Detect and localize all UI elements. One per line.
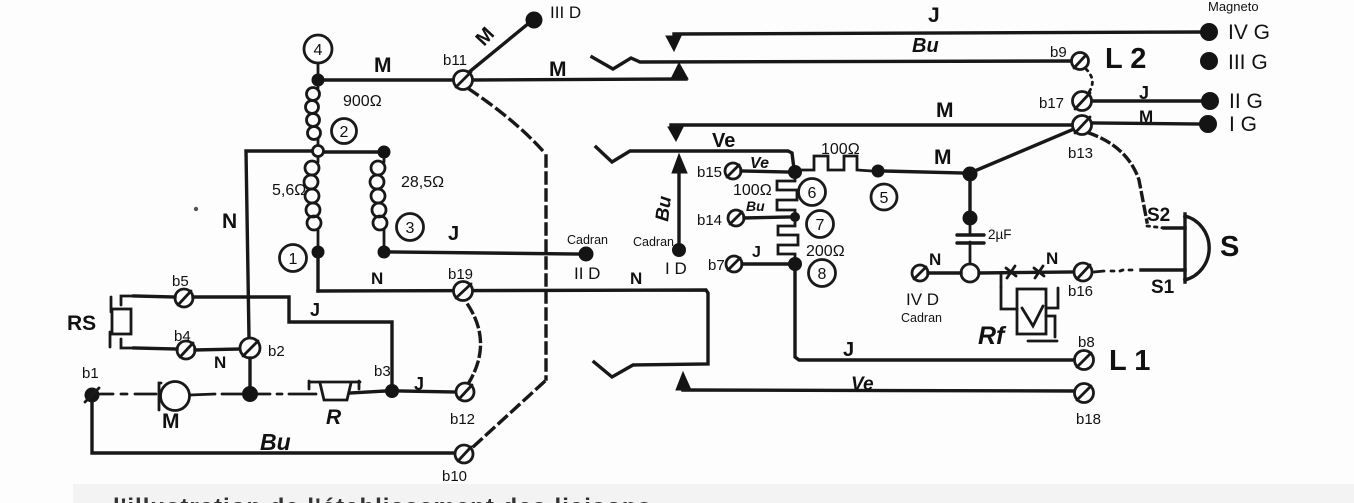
node 4 terminal dot: [312, 74, 325, 87]
node dot 100ohm right: [872, 165, 885, 178]
wire b5 path J to b3: [193, 297, 392, 386]
svg-text:Bu: Bu: [652, 195, 676, 223]
dash-dot b16 to S1: [1094, 270, 1132, 272]
svg-text:I G: I G: [1229, 113, 1257, 136]
circle marker 7: [807, 211, 834, 238]
terminal II D dot: [579, 247, 594, 262]
capacitor 2uF: [957, 225, 984, 264]
wire M from node 4 through b11: [318, 78, 455, 81]
plug contact triangle under J line: [666, 36, 681, 51]
svg-text:N: N: [214, 353, 226, 372]
wire node2 left to N vertical: [246, 151, 312, 338]
wire circle4 stem: [317, 63, 320, 75]
svg-text:II G: II G: [1229, 90, 1263, 113]
wire b11 to III D: [468, 23, 529, 73]
wire M junction down to cap: [968, 181, 971, 212]
svg-text:b10: b10: [442, 468, 467, 485]
svg-text:Bu: Bu: [912, 35, 939, 57]
svg-text:2µF: 2µF: [988, 227, 1012, 242]
svg-text:M: M: [374, 54, 392, 77]
svg-text:S: S: [1220, 231, 1239, 263]
svg-text:7: 7: [816, 217, 825, 234]
dashed diagonal to b10: [473, 382, 544, 447]
svg-text:Cadran: Cadran: [567, 233, 608, 247]
terminal b16: [1074, 263, 1092, 281]
wire node to M junction: [884, 171, 963, 173]
circle marker 8: [809, 260, 836, 287]
dotted curve b9 to b17: [1086, 69, 1092, 92]
wire coil1 bottom down to N line: [316, 252, 319, 291]
wire J line top to IV G: [674, 32, 1203, 34]
terminal b9: [1072, 53, 1089, 70]
resistor 200ohm: [778, 219, 798, 258]
terminal IV G magneto: [1200, 23, 1218, 41]
svg-text:M: M: [162, 410, 180, 433]
junction dot on mic line: [242, 386, 258, 402]
plug contact triangle up on M wire end: [671, 63, 688, 79]
svg-text:b7: b7: [708, 257, 725, 274]
microphone M: [159, 382, 190, 411]
terminal III G magneto: [1200, 52, 1218, 70]
terminal b5: [175, 289, 193, 307]
circle marker 6: [799, 179, 826, 206]
svg-text:I D: I D: [665, 259, 687, 278]
node dot resistor junction: [788, 165, 802, 179]
svg-text:J: J: [310, 300, 320, 320]
svg-text:J: J: [448, 223, 459, 245]
svg-text:200Ω: 200Ω: [806, 243, 845, 260]
terminal I G magneto: [1199, 115, 1217, 133]
node b3 dot: [385, 384, 399, 398]
wire junction to b16 with tick marks: [979, 272, 1074, 273]
wire node8 down and J line to b8: [795, 270, 1074, 360]
wire b17 to II G: [1092, 99, 1201, 102]
svg-text:Cadran: Cadran: [633, 235, 674, 249]
svg-text:S2: S2: [1147, 205, 1170, 226]
wire b4 to b2: [195, 349, 241, 350]
S1 contact lead: [1141, 268, 1185, 271]
svg-text:Ve: Ve: [712, 130, 735, 152]
terminal b13: [1073, 116, 1092, 135]
svg-text:L 1: L 1: [1109, 345, 1150, 377]
wire vertical Bu drop to I D: [677, 173, 680, 246]
node dot M junction: [963, 167, 978, 182]
wire J from coil3 to II D: [390, 252, 579, 254]
wire N long line to lower jack: [318, 290, 708, 377]
svg-text:II D: II D: [574, 264, 600, 283]
wire b2 down to junction: [248, 358, 251, 390]
svg-text:IV G: IV G: [1228, 21, 1270, 44]
terminal b1: [85, 388, 100, 403]
svg-text:b17: b17: [1039, 95, 1064, 112]
node dot coil 28.5 top: [378, 146, 391, 159]
node dot above capacitor: [963, 211, 978, 226]
dashed curve b11 to vertical: [469, 89, 543, 151]
terminal b11: [454, 71, 473, 90]
svg-text:Ve: Ve: [851, 374, 874, 395]
wire receiver to b3: [351, 391, 385, 393]
S2 contact lead: [1164, 226, 1185, 229]
plug contact triangle on Ve line: [672, 154, 687, 173]
svg-text:L 2: L 2: [1105, 43, 1146, 75]
svg-text:100Ω: 100Ω: [821, 141, 860, 158]
svg-text:b1: b1: [82, 365, 99, 382]
terminal b12: [456, 383, 474, 401]
svg-text:M: M: [934, 146, 952, 169]
inductor 28.5ohm coil: [370, 158, 387, 246]
svg-text:J: J: [1139, 83, 1149, 103]
resistor 100ohm top: [800, 156, 872, 171]
svg-text:J: J: [928, 4, 940, 27]
svg-text:RS: RS: [67, 312, 96, 335]
svg-text:3: 3: [406, 220, 415, 237]
terminal b18: [1075, 384, 1094, 403]
wire b1 down Bu line to b10: [92, 402, 455, 453]
wire Bu line with spring contact to b9: [592, 57, 1071, 69]
svg-text:b14: b14: [697, 212, 722, 229]
stray ink dot: [194, 207, 198, 211]
wire diagonal junction to b13: [977, 129, 1074, 170]
relay Rf: [1001, 274, 1058, 341]
svg-text:b12: b12: [450, 411, 475, 428]
svg-text:b16: b16: [1068, 283, 1093, 300]
svg-text:N: N: [222, 210, 237, 233]
wire M long line to b13: [671, 123, 1073, 126]
node small dot b14 junction: [790, 212, 800, 222]
wire b14 to resistor: [744, 217, 790, 218]
inductor 5.6ohm coil: [304, 157, 321, 246]
key S plug: [1185, 214, 1209, 282]
terminal b19 on N line: [454, 282, 473, 301]
node dot coil1 bottom: [312, 246, 325, 259]
wire b15 to node: [741, 171, 788, 172]
circle marker 3: [397, 214, 424, 241]
svg-text:M: M: [936, 99, 954, 122]
svg-text:b4: b4: [174, 328, 191, 345]
scan shadow band bottom: [73, 484, 1354, 503]
receiver R: [309, 381, 360, 400]
svg-text:b13: b13: [1068, 145, 1093, 162]
terminal III D dot: [526, 12, 543, 29]
svg-text:J: J: [752, 244, 761, 261]
wire RS to b4: [134, 348, 177, 349]
resistor 100ohm vertical: [777, 178, 797, 215]
terminal IV D: [912, 265, 928, 281]
junction circle below capacitor: [961, 264, 979, 282]
svg-text:l'illustration de l'établissem: l'illustration de l'établissement des li…: [113, 494, 652, 503]
svg-text:4: 4: [314, 42, 323, 59]
plug contact triangle under M long line: [668, 127, 683, 141]
circle marker 4: [304, 35, 332, 63]
tick mark x1: [1006, 266, 1016, 278]
svg-text:b11: b11: [443, 52, 467, 69]
wire Ve bottom line to b18: [683, 390, 1074, 391]
svg-text:2: 2: [340, 124, 349, 141]
wire b13 to I G: [1091, 123, 1202, 124]
terminal b4: [177, 341, 195, 359]
svg-text:III G: III G: [1228, 51, 1268, 74]
plug contact triangle on Ve bottom line: [676, 372, 691, 390]
circle marker 1: [280, 245, 307, 272]
wire microphone to junction: [190, 394, 242, 395]
node small circle between coils: [313, 146, 324, 157]
wire b1 to microphone dash-dot: [100, 393, 156, 396]
circle marker 5: [871, 184, 897, 210]
dots b13 to S2: [1089, 133, 1147, 222]
wire b7 to junction: [742, 262, 788, 265]
node dot coil3 bottom: [378, 246, 391, 259]
terminal b14: [728, 210, 744, 226]
svg-text:Ve: Ve: [750, 155, 769, 172]
svg-text:Cadran: Cadran: [901, 311, 942, 325]
dashed vertical line: [544, 156, 547, 379]
svg-text:N: N: [371, 269, 383, 288]
svg-text:6: 6: [808, 185, 817, 202]
wire node2 right to 28.5 coil top: [324, 150, 384, 153]
svg-text:III D: III D: [550, 3, 581, 22]
wire RS to b5: [134, 296, 175, 297]
svg-text:b9: b9: [1050, 44, 1067, 61]
terminal b7: [726, 256, 742, 272]
svg-text:b19: b19: [448, 266, 473, 283]
svg-text:5: 5: [880, 190, 889, 207]
svg-text:R: R: [326, 406, 342, 429]
svg-text:J: J: [843, 339, 854, 361]
svg-text:S1: S1: [1151, 277, 1175, 298]
svg-text:28,5Ω: 28,5Ω: [401, 174, 444, 191]
circle marker 2: [332, 119, 357, 144]
terminal b2: [240, 338, 260, 358]
wire Ve line with spring contact: [596, 147, 794, 169]
svg-text:b18: b18: [1076, 411, 1101, 428]
svg-text:b2: b2: [268, 343, 285, 360]
terminal I D dot: [672, 243, 686, 257]
terminal b15: [725, 163, 741, 179]
wire b11 to plug triangle: [471, 79, 686, 80]
terminal b17: [1073, 92, 1092, 111]
node dot b7 junction: [788, 257, 802, 271]
svg-text:IV D: IV D: [906, 290, 939, 309]
svg-text:5,6Ω: 5,6Ω: [272, 182, 306, 199]
wire IV D to junction: [928, 271, 961, 274]
svg-text:100Ω: 100Ω: [733, 182, 772, 199]
svg-text:N: N: [630, 269, 642, 288]
svg-text:J: J: [414, 374, 424, 394]
svg-text:b5: b5: [172, 273, 189, 290]
svg-text:Bu: Bu: [746, 198, 765, 214]
wire b3 to b12: [399, 391, 456, 392]
svg-text:b3: b3: [374, 363, 391, 380]
svg-text:8: 8: [818, 266, 827, 283]
svg-text:N: N: [929, 250, 941, 269]
wire junction to receiver dash-dot: [258, 393, 316, 396]
terminal b8: [1075, 351, 1094, 370]
terminal II G magneto: [1201, 92, 1219, 110]
svg-text:900Ω: 900Ω: [343, 93, 382, 110]
terminal b10: [455, 445, 473, 463]
svg-text:N: N: [1046, 249, 1058, 268]
svg-text:b8: b8: [1078, 334, 1095, 351]
svg-text:M: M: [1139, 107, 1153, 126]
svg-text:b15: b15: [697, 164, 722, 181]
svg-text:Rf: Rf: [978, 322, 1007, 350]
push button RS: [110, 296, 134, 348]
inductor 900ohm coil: [306, 86, 321, 146]
dashed curve b12 to b19: [466, 302, 481, 384]
svg-text:M: M: [549, 58, 567, 81]
svg-text:Bu: Bu: [260, 429, 291, 455]
svg-text:Magneto: Magneto: [1208, 0, 1259, 14]
svg-text:1: 1: [289, 251, 298, 268]
tick mark x2: [1034, 266, 1044, 278]
